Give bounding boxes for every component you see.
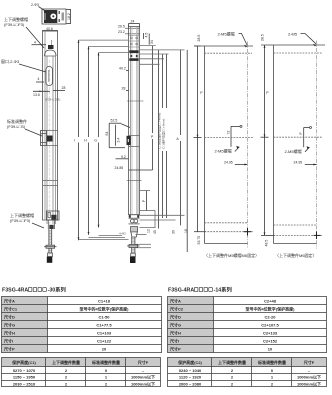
unit4 body [261,45,325,244]
svg-text:尺寸C1: 尺寸C1 [4,306,18,312]
unit4 centerline [316,41,318,249]
svg-text:45: 45 [153,230,157,234]
unit2 body [129,27,140,215]
svg-text:(F39-L□F3): (F39-L□F3) [10,218,31,223]
svg-text:(F39-L□S): (F39-L□S) [7,124,26,129]
svg-text:尺寸G: 尺寸G [4,322,15,328]
svg-text:型号中的4位数字(保护高度): 型号中的4位数字(保护高度) [246,306,296,312]
svg-text:40.2: 40.2 [119,67,126,71]
svg-text:标准调整件数量: 标准调整件数量 [257,359,286,365]
unit2 dim 26.5 [118,24,140,28]
unit4 mid bracket [285,127,317,166]
unit1 adjust nut [44,245,57,248]
dim line H [84,46,88,234]
svg-text:尺寸H: 尺寸H [170,330,181,336]
svg-text:窗口,2-Φ3: 窗口,2-Φ3 [1,58,20,64]
svg-text:尺寸F: 尺寸F [138,359,149,365]
svg-text:24.95: 24.95 [294,160,303,164]
svg-text:4-M3: 4-M3 [119,232,126,236]
line P [151,46,154,171]
rotated note line 1 [156,54,162,218]
svg-text:18.2: 18.2 [67,13,71,20]
unit1 top cap arc [45,50,57,56]
cross-section dark profile [44,10,64,23]
svg-text:2-Φ3: 2-Φ3 [31,3,39,7]
unit1 dim 28 [53,86,65,91]
svg-text:尺寸I: 尺寸I [170,338,179,344]
svg-text:2030 ~ 2510: 2030 ~ 2510 [13,381,36,386]
svg-text:尺寸D: 尺寸D [4,314,15,320]
unit2 top connectors [140,46,185,65]
svg-text:C□(保护高度C□+9mm): C□(保护高度C□+9mm) [160,119,165,149]
unit4 mid dashed line [274,136,323,138]
table1 spec table 30 series [2,297,162,353]
unit1 label up-down adjuster [4,16,44,48]
unit2 bottom connectors [136,191,185,235]
unit2 dim 28 [122,87,129,91]
table4 bracket qty table 14 series [168,358,327,387]
svg-text:2000 ~ 2080: 2000 ~ 2080 [179,381,202,386]
line D [155,50,159,229]
svg-text:28: 28 [122,87,126,91]
unit1 dim 13.6 [33,91,50,98]
svg-text:C1-50: C1-50 [99,315,111,320]
unit2 dim 23.2 [118,30,140,34]
svg-text:C2+133: C2+133 [263,331,278,336]
unit2 dim 24.85 [115,166,153,170]
svg-text:0240 ~ 1040: 0240 ~ 1040 [179,368,202,373]
unit1 bottom dark marks [48,220,54,229]
svg-text:23.2: 23.2 [118,30,125,34]
svg-text:1150 ~ 1950: 1150 ~ 1950 [13,375,36,380]
line B right [186,50,188,252]
unit1 label standard adjuster [7,118,42,136]
svg-text:1000mm以下: 1000mm以下 [297,380,321,386]
svg-text:48.5: 48.5 [265,240,269,247]
svg-text:保护高度(C1): 保护高度(C1) [11,359,36,365]
unit2 mid bracket dims 64/3.4 [105,123,130,148]
svg-text:C1+103: C1+103 [97,331,112,336]
unit4 bottom dashed lines [274,225,324,235]
svg-text:28.5: 28.5 [197,35,201,42]
svg-text:0270 ~ 1070: 0270 ~ 1070 [13,368,36,373]
unit3 body [194,46,253,244]
table3 spec table 14 series [168,297,327,353]
unit3 bottom dashed lines [205,223,254,232]
svg-text:28.5: 28.5 [261,34,265,41]
svg-text:(F39-L□F3): (F39-L□F3) [4,22,25,27]
svg-text:F3SG-4RA: F3SG-4RA [168,288,194,294]
svg-text:尺寸A: 尺寸A [4,298,15,304]
svg-text:3.4: 3.4 [117,138,121,143]
svg-text:1120 ~ 1920: 1120 ~ 1920 [179,375,202,380]
unit2 bottom rotated dims [147,229,189,234]
unit2 threaded rod [132,237,135,253]
unit1 bottom adjuster box [47,211,60,220]
svg-text:13.6: 13.6 [33,93,40,97]
unit2 bottom end details [129,215,139,218]
svg-text:1000mm以下: 1000mm以下 [131,374,155,380]
svg-text:尺寸P: 尺寸P [4,346,15,352]
unit1 window label [1,58,46,72]
cross-section view box [42,9,66,24]
svg-text:52.5: 52.5 [111,118,118,122]
svg-text:〈上下调整件M5螺帽M6固定〉: 〈上下调整件M5螺帽M6固定〉 [204,252,259,258]
bottom connectors IHG [79,236,129,240]
svg-text:53.75: 53.75 [197,236,201,245]
svg-text:尺寸A: 尺寸A [170,298,181,304]
unit4 bottom cross tick [316,232,318,240]
svg-text:2-M5螺帽: 2-M5螺帽 [218,31,235,37]
svg-text:1000mm以下: 1000mm以下 [131,380,155,386]
svg-text:24.85: 24.85 [115,166,124,170]
svg-text:C2-20: C2-20 [265,315,277,320]
unit4 label 2-M5 [288,32,317,47]
svg-text:〈上下调整件M6固定〉: 〈上下调整件M6固定〉 [275,252,317,258]
svg-text:10: 10 [268,347,273,352]
unit1 top adjuster screws [48,45,54,49]
unit2 IHG top connectors [79,40,129,53]
svg-text:I: I [74,139,75,143]
unit2 dim 40.2 [119,67,129,71]
svg-text:72: 72 [227,131,231,135]
svg-text:尺寸F: 尺寸F [304,359,315,365]
unit1 bottom label up-down adjuster [10,212,44,228]
svg-text:1000mm以下: 1000mm以下 [297,374,321,380]
svg-text:保护高度(C2): 保护高度(C2) [177,359,202,365]
svg-text:9.2: 9.2 [121,155,126,159]
svg-text:标准调整件数量: 标准调整件数量 [91,359,120,365]
unit2 upper screw texture [129,36,139,48]
svg-text:34: 34 [150,40,154,44]
svg-text:20: 20 [102,347,107,352]
unit1 center dash line [49,60,51,224]
svg-text:-14系列: -14系列 [214,286,233,294]
unit2 adjust nut [127,245,139,248]
unit2 nut connectors [136,244,152,247]
unit1 window oval [46,67,53,86]
title right [168,286,233,294]
svg-text:39: 39 [172,230,176,234]
unit3 left dim line [194,46,206,232]
svg-text:24.95: 24.95 [224,160,233,164]
unit4 left line mid tick [261,134,269,137]
unit2 top dim 24 [129,20,140,28]
svg-text:尺寸D: 尺寸D [170,314,181,320]
unit2 right dim 4.5 [144,33,149,39]
svg-text:64: 64 [105,132,109,136]
svg-text:4: 4 [38,77,40,81]
unit2 bottom dim P [142,191,147,212]
cross-section right dim 18.2 [67,10,72,24]
svg-text:28: 28 [62,86,66,90]
unit4 left dim line [261,45,275,235]
cross-section label 2-phi3 [31,3,45,11]
svg-text:4.5: 4.5 [144,33,148,38]
unit2 mid bracket body [127,136,140,147]
dim line I [74,40,78,240]
svg-text:C1+122: C1+122 [97,339,112,344]
svg-text:24: 24 [131,20,135,24]
dim arrows IHG [78,40,100,240]
svg-text:2-M5螺帽: 2-M5螺帽 [285,148,302,154]
unit1 dim 4 top [32,41,47,45]
unit2 mid bracket dim 52.5 [109,118,121,123]
svg-text:C2+48: C2+48 [264,299,277,304]
unit1 body [43,31,58,225]
line A [176,50,180,226]
table2 bracket qty table 30 series [2,358,161,387]
svg-text:4: 4 [34,41,36,45]
svg-text:(F39-L□S3): (F39-L□S3) [45,98,60,102]
svg-text:型号中的4位数字(保护高度): 型号中的4位数字(保护高度) [80,306,130,312]
svg-text:尺寸H: 尺寸H [4,330,15,336]
unit2 window tick marks [127,101,144,181]
svg-text:C1+18: C1+18 [98,299,111,304]
unit3 label 2-M5 nut [218,31,248,48]
unit4 top dashed line [274,52,323,54]
unit3 top dashed line [205,52,253,54]
svg-text:26.5: 26.5 [118,24,125,28]
title left [2,286,67,294]
unit3 mid dashed line [205,137,254,139]
unit3 bottom cross tick [247,228,249,236]
unit3 centerline [247,42,249,249]
svg-text:C1+77.5: C1+77.5 [96,323,112,328]
svg-text:尺寸G: 尺寸G [170,322,181,328]
unit3 mid bracket [215,125,248,165]
unit1 mid bracket [41,131,58,146]
rotated note line 2 [160,54,166,218]
unit1 lower ticks [43,181,58,186]
svg-text:尺寸C2: 尺寸C2 [170,306,184,312]
svg-text:C2+107.5: C2+107.5 [261,323,279,328]
unit1 top dim 40.6 [43,27,58,31]
svg-text:12: 12 [147,229,151,233]
unit1 dim 4 mid [36,77,44,82]
svg-text:G: G [94,139,97,143]
svg-text:尺寸I: 尺寸I [4,338,13,344]
svg-text:F3SG-4RA: F3SG-4RA [2,288,28,294]
svg-text:尺寸P: 尺寸P [170,346,181,352]
dim line G [94,53,98,228]
unit2 top cap details [129,50,138,61]
svg-text:2-M5螺帽: 2-M5螺帽 [215,147,232,153]
svg-text:-30系列: -30系列 [48,286,67,294]
unit3 left line mid tick [194,135,202,138]
svg-text:上下调整件数量: 上下调整件数量 [52,359,80,365]
unit2 connector [130,253,136,263]
unit2 right dim 34 [149,34,154,45]
unit2 dim 9.2 [116,155,129,159]
unit1 connector [47,253,53,263]
svg-text:18: 18 [184,229,188,233]
svg-text:2-M5: 2-M5 [288,32,298,37]
svg-text:C2+152: C2+152 [263,339,278,344]
svg-text:上下调整件数量: 上下调整件数量 [218,359,246,365]
unit1 threaded rod [49,229,52,253]
